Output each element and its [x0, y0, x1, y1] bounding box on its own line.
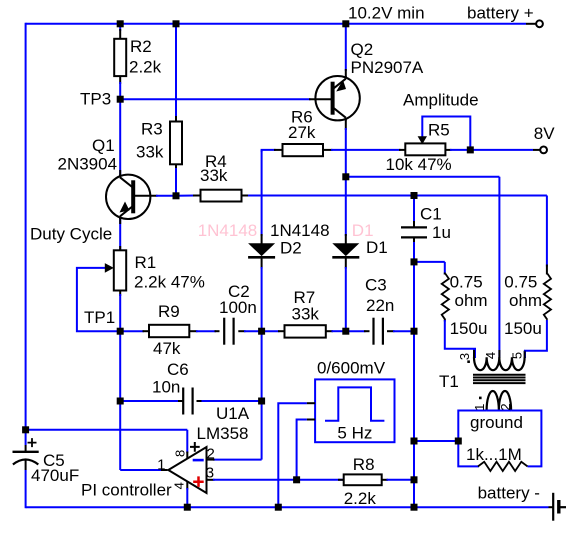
svg-text:2.2k: 2.2k — [344, 489, 377, 508]
svg-text:4: 4 — [483, 352, 498, 359]
svg-text:PN2907A: PN2907A — [351, 58, 424, 77]
svg-text:U1A: U1A — [216, 404, 250, 423]
svg-text:LM358: LM358 — [197, 424, 249, 443]
svg-text:2: 2 — [498, 403, 513, 410]
svg-text:battery -: battery - — [478, 484, 540, 503]
svg-text:C3: C3 — [365, 276, 387, 295]
svg-text:R9: R9 — [158, 302, 180, 321]
svg-text:Q1: Q1 — [92, 136, 115, 155]
svg-text:8: 8 — [172, 450, 187, 457]
svg-text:10k 47%: 10k 47% — [386, 155, 452, 174]
svg-text:D1: D1 — [366, 238, 388, 257]
svg-text:C6: C6 — [167, 360, 189, 379]
svg-text:5 Hz: 5 Hz — [337, 424, 372, 443]
svg-text:Q2: Q2 — [351, 40, 374, 59]
svg-text:R3: R3 — [141, 120, 163, 139]
svg-text:TP3: TP3 — [80, 90, 111, 109]
svg-text:150u: 150u — [504, 319, 542, 338]
svg-text:R1: R1 — [135, 253, 157, 272]
svg-text:33k: 33k — [292, 305, 320, 324]
svg-text:ohm: ohm — [509, 291, 542, 310]
svg-text:470uF: 470uF — [31, 466, 79, 485]
svg-text:Duty Cycle: Duty Cycle — [30, 225, 112, 244]
svg-text:ground: ground — [470, 413, 523, 432]
svg-text:8V: 8V — [534, 124, 555, 143]
svg-text:33k: 33k — [200, 166, 228, 185]
svg-text:0.75: 0.75 — [504, 273, 537, 292]
svg-text:1: 1 — [157, 457, 165, 474]
svg-text:C1: C1 — [420, 205, 442, 224]
svg-text:100n: 100n — [219, 298, 257, 317]
svg-text:R2: R2 — [130, 37, 152, 56]
svg-text:10n: 10n — [152, 378, 180, 397]
svg-text:47k: 47k — [153, 339, 181, 358]
svg-text:5: 5 — [510, 352, 525, 359]
svg-text:1u: 1u — [432, 223, 451, 242]
svg-text:ohm: ohm — [455, 291, 488, 310]
svg-text:2.2k 47%: 2.2k 47% — [134, 273, 205, 292]
svg-text:R5: R5 — [428, 121, 450, 140]
svg-text:1: 1 — [472, 404, 487, 411]
svg-text:3: 3 — [206, 465, 214, 482]
svg-text:Amplitude: Amplitude — [403, 91, 479, 110]
svg-text:22n: 22n — [366, 296, 394, 315]
svg-text:1N4148: 1N4148 — [270, 221, 330, 240]
svg-text:27k: 27k — [288, 123, 316, 142]
svg-text:T1: T1 — [439, 372, 459, 391]
svg-text:1k...1M: 1k...1M — [466, 445, 522, 464]
svg-text:33k: 33k — [136, 143, 164, 162]
svg-text:4: 4 — [172, 482, 187, 489]
svg-text:1N4148: 1N4148 — [198, 221, 258, 240]
svg-text:3: 3 — [457, 353, 472, 360]
svg-text:PI controller: PI controller — [81, 481, 172, 500]
svg-text:0.75: 0.75 — [450, 273, 483, 292]
svg-text:2.2k: 2.2k — [129, 58, 162, 77]
svg-text:2: 2 — [207, 446, 215, 463]
svg-text:0/600mV: 0/600mV — [317, 359, 386, 378]
svg-text:10.2V min: 10.2V min — [348, 4, 425, 23]
svg-text:R8: R8 — [353, 455, 375, 474]
svg-text:TP1: TP1 — [84, 308, 115, 327]
svg-text:150u: 150u — [450, 319, 488, 338]
svg-text:2N3904: 2N3904 — [58, 155, 118, 174]
svg-text:D2: D2 — [280, 239, 302, 258]
svg-text:battery +: battery + — [467, 4, 534, 23]
